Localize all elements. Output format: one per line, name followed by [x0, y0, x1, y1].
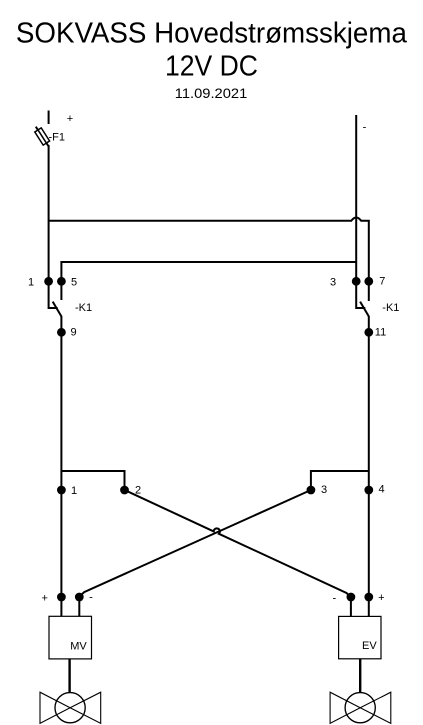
- wire: H2 - rail horizontal to node 5 stub: [61, 262, 356, 300]
- EV + dot: [364, 593, 373, 602]
- svg-text:9: 9: [70, 327, 76, 339]
- wire: left bracket to terminal 2: [61, 471, 124, 490]
- svg-text:+: +: [67, 113, 73, 125]
- svg-text:-: -: [363, 122, 367, 134]
- svg-text:EV: EV: [362, 640, 377, 652]
- svg-text:MV: MV: [70, 640, 87, 652]
- wire: - supply right vertical down to contact, with tick: [356, 115, 365, 308]
- wire: MV + lead: [60, 597, 62, 616]
- wire: + supply stub above fuse: [48, 111, 50, 125]
- svg-text:+: +: [41, 593, 47, 605]
- contact K1 left blade: [53, 302, 62, 317]
- svg-text:5: 5: [71, 276, 77, 288]
- MV + dot: [57, 593, 66, 602]
- wire: right bracket to terminal 3: [311, 471, 369, 490]
- terminal 3 dot: [307, 486, 316, 495]
- node 11 dot: [364, 328, 373, 337]
- svg-text:-F1: -F1: [49, 131, 66, 143]
- svg-text:SOKVASS Hovedstrømsskjema: SOKVASS Hovedstrømsskjema: [16, 18, 407, 50]
- motor MV box: [49, 616, 92, 659]
- wire: left common from node 9 down to MV +: [60, 316, 62, 597]
- node 7 dot: [364, 277, 373, 286]
- wire: crossover terminal 2 to EV -: [125, 490, 351, 597]
- node 5 dot: [57, 277, 66, 286]
- svg-text:11.09.2021: 11.09.2021: [175, 86, 248, 101]
- wire: EV - lead: [350, 597, 352, 616]
- svg-text:4: 4: [378, 484, 384, 496]
- svg-text:3: 3: [321, 484, 327, 496]
- EV - dot: [347, 593, 356, 602]
- node 9 dot: [57, 328, 66, 337]
- terminal 2 dot: [120, 486, 129, 495]
- terminal 4 dot: [364, 486, 373, 495]
- terminal 1 dot: [57, 486, 66, 495]
- fuse F1 body: [35, 128, 50, 145]
- svg-text:12V DC: 12V DC: [165, 51, 258, 83]
- EV valve stem: [359, 659, 361, 693]
- wire: MV - lead: [78, 597, 80, 616]
- wire: H1 + rail horizontal with hop over - rail, down to node 7: [49, 217, 369, 301]
- wire: right common from node 11 down to EV +: [368, 316, 370, 597]
- wire: EV + lead: [368, 597, 370, 616]
- svg-text:+: +: [378, 592, 384, 604]
- node 1 dot: [44, 277, 53, 286]
- MV valve stem: [68, 659, 70, 693]
- svg-text:1: 1: [71, 485, 77, 497]
- EV valve symbol: [330, 692, 391, 723]
- svg-text:-: -: [89, 592, 93, 604]
- wire: left + rail vertical down to contact, with tick: [49, 145, 58, 308]
- svg-text:7: 7: [379, 276, 385, 288]
- fuse F1 blade wire: [36, 127, 49, 147]
- svg-text:-: -: [332, 593, 336, 605]
- svg-text:1: 1: [28, 276, 34, 288]
- motor EV box: [339, 616, 381, 658]
- svg-text:11: 11: [375, 327, 386, 339]
- node 3 dot: [352, 277, 361, 286]
- MV valve symbol: [40, 692, 101, 723]
- svg-text:-K1: -K1: [382, 302, 399, 314]
- svg-text:3: 3: [330, 276, 336, 288]
- contact K1 right blade: [360, 302, 369, 317]
- MV - dot: [75, 593, 84, 602]
- wire: crossover terminal 3 to MV -: [79, 490, 311, 597]
- svg-text:2: 2: [135, 484, 141, 496]
- svg-text:-K1: -K1: [75, 302, 92, 314]
